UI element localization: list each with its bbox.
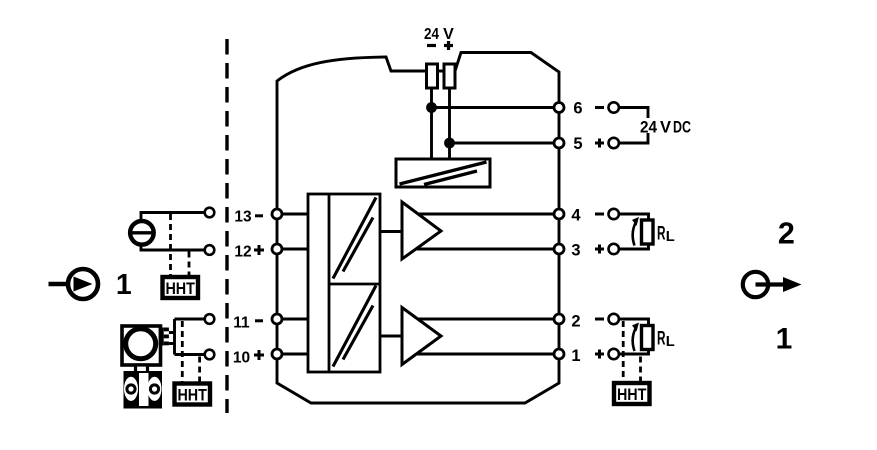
junction dot A: [426, 102, 437, 113]
svg-text:L: L: [666, 228, 675, 245]
svg-text:5: 5: [573, 135, 582, 153]
transmitter 2 body: [124, 371, 163, 409]
wire junction to terminal 5: [450, 142, 554, 145]
svg-text:1: 1: [571, 347, 580, 365]
wire terminal 11 to converter: [277, 318, 308, 321]
ext circle 1: [609, 349, 619, 359]
terminal 6 circle: [554, 103, 564, 113]
dashed HHT wires ch2 output: [622, 321, 625, 381]
wire amp1 to terminal 3: [416, 248, 553, 251]
terminal 10 circle: [272, 349, 282, 359]
wire terminal 12 to converter: [277, 248, 308, 251]
minus sign terminal 6 ext: [595, 106, 604, 109]
wire amp1 to terminal 4: [418, 213, 553, 216]
plus sign terminal 3 ext: [595, 248, 604, 251]
svg-text:HHT: HHT: [617, 385, 647, 404]
terminal 1 circle: [554, 349, 564, 359]
ext circle 2: [609, 314, 619, 324]
transmitter 2 terminal comb: [159, 328, 164, 346]
junction dot B: [444, 138, 455, 149]
wire converter to amp 2: [380, 335, 402, 338]
terminal 2 circle: [554, 314, 564, 324]
input converter block: [308, 194, 380, 372]
svg-text:4: 4: [571, 207, 581, 225]
dashed HHT wires transmitter1: [169, 214, 172, 275]
svg-text:2: 2: [778, 217, 795, 251]
svg-text:L: L: [666, 333, 675, 350]
dashed HHT wires transmitter2: [181, 321, 184, 382]
minus sign terminal 4 ext: [595, 213, 604, 216]
wire load loop ch1: [620, 214, 649, 249]
wire transmitter1 top: [141, 213, 205, 220]
terminal 3 circle: [554, 244, 564, 254]
device block outline: [277, 53, 559, 404]
ext circle d: [205, 350, 215, 360]
terminal 13 circle: [272, 209, 282, 219]
arrow in circle left: [49, 282, 68, 287]
svg-text:10: 10: [233, 350, 250, 367]
svg-text:13: 13: [234, 209, 252, 226]
arrow adjustable RL2: [633, 327, 637, 352]
HHT box left 1: [163, 277, 199, 298]
svg-text:V: V: [660, 118, 671, 136]
svg-text:V: V: [443, 26, 454, 43]
minus sign top: [427, 44, 436, 47]
svg-text:24: 24: [640, 118, 658, 136]
ext circle 3: [609, 244, 619, 254]
ext circle 4: [609, 209, 619, 219]
svg-text:12: 12: [234, 243, 251, 260]
resistor RL1: [642, 220, 654, 244]
svg-text:HHT: HHT: [177, 385, 207, 404]
wire converter to amp 1: [380, 230, 402, 233]
wire supply left down: [430, 88, 433, 159]
wire junction to terminal 6: [432, 106, 554, 109]
resistor RL2: [642, 326, 654, 350]
isolation diagonal channel 1: [333, 198, 376, 279]
terminal 5 circle: [554, 138, 564, 148]
supply terminal - (left fuse rect): [427, 64, 438, 88]
arrow adjustable RL1: [633, 221, 637, 246]
plus sign terminal 5 ext: [595, 142, 604, 145]
wire load loop ch2: [620, 319, 649, 354]
HHT box left 2: [175, 384, 211, 405]
svg-text:R: R: [657, 328, 666, 350]
ext circle 5: [609, 138, 619, 148]
svg-text:6: 6: [573, 100, 582, 118]
svg-text:R: R: [657, 223, 666, 245]
svg-text:11: 11: [233, 314, 250, 331]
terminal 4 circle: [554, 209, 564, 219]
ext circle a: [205, 208, 215, 218]
wire transmitter2 bracket: [169, 319, 205, 355]
power supply converter box: [396, 159, 490, 187]
plus sign top: [444, 44, 453, 47]
plus sign terminal 1 ext: [595, 353, 604, 356]
svg-text:1: 1: [116, 269, 132, 301]
svg-text:1: 1: [776, 323, 793, 356]
transmitter 2 neck: [136, 365, 148, 373]
transmitter 1 (2-wire) circle: [130, 221, 154, 245]
svg-text:3: 3: [571, 242, 580, 260]
svg-text:24: 24: [424, 26, 439, 43]
HHT box right: [614, 383, 650, 404]
amplifier channel 2: [402, 308, 441, 365]
wire supply right down: [448, 88, 451, 159]
wire terminal 13 to converter: [277, 213, 308, 216]
arrow in circle right: [743, 272, 768, 297]
wire transmitter1 bottom: [141, 246, 205, 250]
separation dashed line field/control side: [225, 39, 228, 413]
isolation diagonal channel 2: [333, 286, 376, 367]
terminal 11 circle: [272, 314, 282, 324]
supply terminal + (right fuse rect): [444, 64, 455, 88]
smart transmitter 2 housing: [122, 326, 161, 365]
svg-text:DC: DC: [673, 118, 691, 136]
minus sign terminal 2 ext: [595, 318, 604, 321]
amplifier channel 1: [402, 202, 441, 259]
wire amp2 to terminal 2: [418, 318, 553, 321]
wire amp2 to terminal 1: [416, 353, 553, 356]
wire 24VDC bracket: [620, 108, 649, 144]
ext circle 6: [609, 102, 619, 112]
svg-text:2: 2: [571, 313, 580, 331]
ext circle b: [205, 245, 215, 255]
ext circle c: [205, 314, 215, 324]
svg-text:HHT: HHT: [165, 279, 195, 298]
wire terminal 10 to converter: [277, 353, 308, 356]
terminal 12 circle: [272, 244, 282, 254]
